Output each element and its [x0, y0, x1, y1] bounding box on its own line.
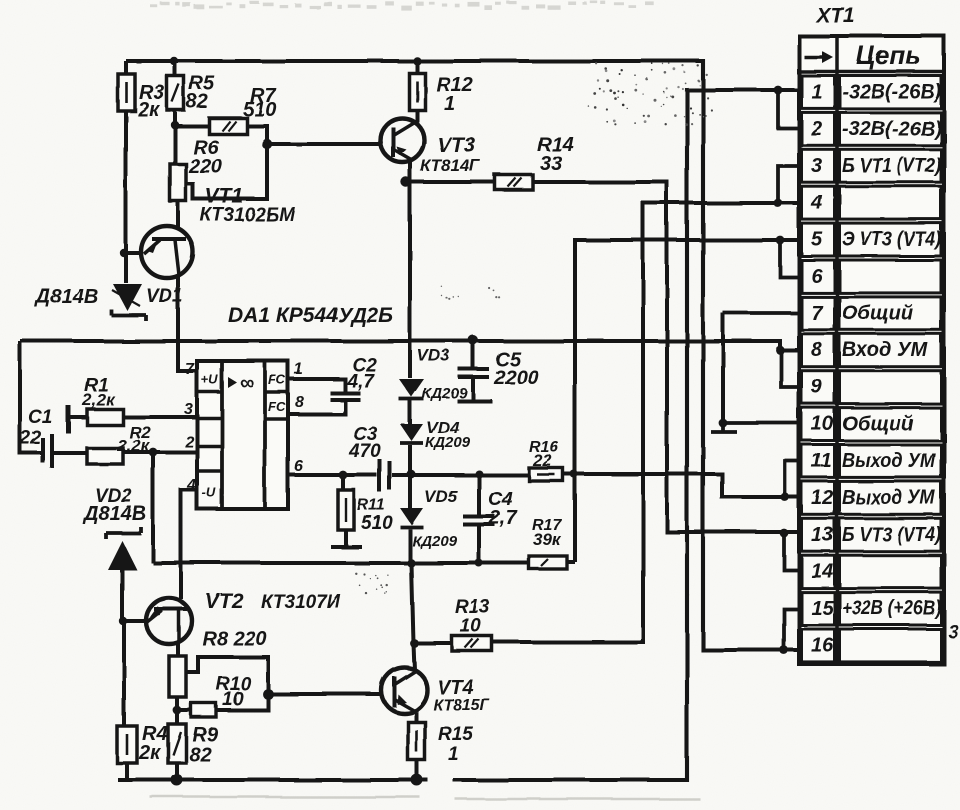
- svg-text:Общий: Общий: [842, 302, 913, 324]
- wire C3 to R16: [392, 473, 529, 477]
- connector XT1 table: [799, 4, 944, 664]
- resistor R10: [191, 703, 216, 717]
- faint scan ghost line at bottom: [150, 797, 700, 799]
- wire output node to VD5: [408, 474, 412, 508]
- common bar below C5: [457, 399, 492, 403]
- zener diode VD1: [111, 284, 146, 321]
- svg-text:3: 3: [948, 622, 959, 643]
- wire VT4 emitter to R15: [414, 712, 418, 722]
- wire pin 7 stub: [723, 311, 799, 315]
- wire bracket pins 15-16: [784, 609, 799, 650]
- svg-text:Б VT1 (VT2): Б VT1 (VT2): [842, 155, 941, 177]
- connector header divider: [799, 70, 944, 74]
- svg-text:КД209: КД209: [425, 434, 471, 451]
- svg-text:470: 470: [348, 441, 381, 462]
- resistor R6: [170, 164, 186, 201]
- svg-text:1: 1: [444, 93, 455, 115]
- wire VT2 emitter to left rail: [124, 619, 147, 623]
- scan speckle noise: [355, 62, 712, 595]
- wire R11 bottom to common bar: [344, 530, 348, 546]
- connector row 2: [802, 112, 942, 145]
- connector row 14: [802, 555, 942, 588]
- svg-text:2,2к: 2,2к: [116, 436, 151, 455]
- svg-text:VT4: VT4: [437, 677, 474, 699]
- svg-text:11: 11: [811, 450, 832, 472]
- svg-text:R9: R9: [192, 724, 218, 746]
- svg-text:6: 6: [294, 458, 303, 475]
- svg-text:КТ814Г: КТ814Г: [420, 156, 481, 175]
- svg-text:КТ3102БМ: КТ3102БМ: [200, 205, 296, 226]
- resistor R15: [408, 722, 425, 760]
- resistor R1: [87, 409, 123, 425]
- svg-text:VT3: VT3: [437, 134, 476, 157]
- wire R1 to DA1 pin 3: [123, 415, 197, 419]
- svg-text:VT2: VT2: [205, 590, 244, 613]
- wire bracket pins 3-4: [778, 166, 799, 203]
- wire pins 7-10 bracket: [721, 313, 725, 423]
- resistor R17: [529, 556, 567, 569]
- svg-text:КТ3107И: КТ3107И: [261, 592, 341, 613]
- svg-text:22: 22: [532, 451, 552, 470]
- svg-text:7: 7: [185, 361, 195, 378]
- svg-text:8: 8: [295, 394, 304, 411]
- svg-text:2: 2: [810, 118, 822, 140]
- op-amp DA1: [197, 361, 288, 509]
- svg-text:VD3: VD3: [417, 346, 451, 365]
- svg-text:Цепь: Цепь: [856, 40, 921, 70]
- svg-text:VD1: VD1: [146, 286, 183, 307]
- wire VT4 base line: [268, 692, 382, 696]
- wire DA1 pin 8 to C2: [288, 400, 345, 414]
- faint cropped text at top edge: [150, 1, 654, 11]
- zener diode VD2: [106, 527, 141, 570]
- resistor R14: [495, 175, 533, 190]
- svg-text:Выход УМ: Выход УМ: [842, 450, 936, 472]
- resistor R2: [87, 448, 123, 464]
- wire bracket pins 8-9: [781, 350, 799, 387]
- wire bracket pins 5-6: [780, 240, 799, 277]
- wire VD2 lead down to VT2 node: [120, 570, 124, 621]
- wire bracket pins 13-14: [784, 533, 799, 570]
- svg-text:14: 14: [811, 561, 833, 583]
- common bar below R11: [331, 545, 362, 549]
- svg-text:9: 9: [811, 376, 823, 398]
- svg-text:510: 510: [243, 99, 276, 121]
- wire R10 loop to R8 top notch: [186, 657, 268, 710]
- svg-text:Выход УМ: Выход УМ: [842, 487, 936, 509]
- wire VD chain column: [408, 182, 412, 378]
- svg-text:FC: FC: [268, 372, 286, 387]
- connector row 8: [802, 334, 942, 367]
- wire R5 bottom to node: [173, 110, 177, 126]
- svg-text:VD5: VD5: [424, 487, 458, 506]
- wire R1 left stub: [68, 415, 87, 419]
- wire R5 top lead: [173, 61, 177, 76]
- svg-text:4: 4: [186, 477, 196, 494]
- wire C4 branch top: [477, 474, 481, 516]
- svg-text:-32В(-26В): -32В(-26В): [842, 81, 941, 103]
- svg-text:10: 10: [460, 616, 482, 637]
- svg-text:FC: FC: [268, 399, 286, 414]
- wire DA1 pin 6 output: [288, 473, 377, 477]
- connector row 5: [802, 223, 942, 256]
- svg-text:1: 1: [811, 81, 822, 103]
- transistor VT1: [141, 226, 193, 278]
- wire VT1 collector down to DA1 pin 7: [178, 276, 197, 371]
- connector row 15: [802, 592, 942, 625]
- wire node to R7: [175, 124, 209, 128]
- svg-text:3: 3: [811, 155, 822, 177]
- wire VD3 to VD4: [408, 400, 412, 424]
- wire R13 to bus and pins 3/4 feed: [492, 203, 799, 642]
- connector column divider: [835, 36, 839, 664]
- svg-text:2200: 2200: [493, 367, 539, 389]
- svg-text:1: 1: [294, 361, 303, 378]
- svg-text:DA1 КР544УД2Б: DA1 КР544УД2Б: [228, 304, 393, 327]
- connector row 11: [802, 445, 942, 478]
- connector row 1: [802, 76, 942, 109]
- wire DA1 pin 4 to VT2: [181, 490, 197, 599]
- resistor R4: [117, 726, 137, 763]
- connector outer frame: [799, 36, 944, 664]
- svg-text:10: 10: [811, 413, 833, 435]
- connector row 16: [802, 629, 942, 662]
- svg-text:6: 6: [811, 265, 823, 287]
- resistor R9: [168, 724, 186, 763]
- svg-text:8: 8: [811, 339, 823, 361]
- capacitor C4: [463, 517, 495, 525]
- resistor R5: [167, 76, 184, 110]
- svg-text:7: 7: [811, 302, 823, 324]
- wire feedback line down to VT4 collector: [411, 563, 414, 670]
- svg-text:C1: C1: [28, 407, 52, 428]
- wire node to R10: [177, 708, 191, 712]
- wire R14 to bus and pin 13 feed: [533, 182, 799, 532]
- capacitor C1: [43, 434, 52, 468]
- wire C4 branch bottom: [477, 524, 481, 563]
- svg-text:33: 33: [540, 153, 562, 175]
- svg-text:10: 10: [222, 689, 244, 710]
- capacitor C5: [458, 369, 489, 377]
- wire R6 to VT1 base: [176, 201, 180, 227]
- connector row 3: [802, 149, 942, 182]
- svg-text:22: 22: [19, 428, 42, 449]
- wire R17 right lead: [567, 560, 575, 564]
- svg-text:16: 16: [811, 635, 834, 657]
- resistor R11: [338, 490, 354, 530]
- resistor R3: [118, 74, 135, 111]
- node stub left of R1: [66, 405, 71, 433]
- wire R16 to output feed pins 11/12: [563, 474, 799, 497]
- connector row 12: [802, 481, 942, 514]
- capacitor C2: [330, 393, 360, 400]
- resistor R7: [209, 118, 247, 134]
- svg-text:1: 1: [448, 744, 459, 765]
- svg-text:82: 82: [189, 744, 211, 766]
- capacitor C3: [380, 459, 390, 492]
- wire inverting node down to feedback line: [151, 452, 155, 563]
- svg-text:R11: R11: [357, 497, 385, 514]
- connector row 6: [802, 260, 942, 293]
- svg-text:∞: ∞: [240, 372, 254, 394]
- connector row 13: [802, 518, 942, 551]
- svg-text:39к: 39к: [533, 530, 562, 549]
- svg-text:Б VT3 (VT4): Б VT3 (VT4): [842, 524, 941, 546]
- svg-text:Э VT3 (VT4): Э VT3 (VT4): [842, 229, 941, 251]
- wire R7 to loop corner and VT3 base tap: [186, 126, 267, 199]
- diode VD3: [399, 379, 424, 399]
- wire C5 branch bottom to common bar: [471, 378, 475, 400]
- svg-text:+U: +U: [201, 372, 219, 387]
- svg-text:+32В (+26В): +32В (+26В): [842, 598, 941, 620]
- connector row 10: [802, 408, 942, 441]
- svg-text:Д814В: Д814В: [82, 503, 146, 525]
- resistor R12: [409, 73, 425, 110]
- svg-text:82: 82: [186, 91, 208, 113]
- svg-text:Д814В: Д814В: [34, 286, 98, 308]
- wire top rail (-32V) to pins 15/16: [126, 61, 799, 650]
- svg-text:12: 12: [811, 487, 833, 509]
- svg-text:2к: 2к: [137, 99, 160, 121]
- svg-text:4: 4: [810, 192, 822, 214]
- wire VT2 collector to R8: [176, 643, 180, 656]
- wire R11 top lead: [341, 475, 345, 490]
- wire R4 bottom lead: [125, 763, 129, 781]
- wire input line pin 8 net: [20, 341, 799, 350]
- wire R15 bottom lead: [415, 760, 419, 781]
- wire VD4 to output node: [408, 445, 412, 474]
- wire DA1 pin 1 to C2: [288, 379, 345, 392]
- svg-text:2,2к: 2,2к: [81, 390, 116, 409]
- wire R14 line from VT3 node: [406, 180, 495, 184]
- wire R13 line: [414, 641, 452, 645]
- wire R8 to R10 node: [175, 697, 179, 724]
- wire R12 top lead: [415, 61, 419, 73]
- wire left rail R3 top lead: [124, 61, 128, 74]
- connector row 7: [802, 297, 942, 330]
- svg-text:5: 5: [811, 229, 823, 251]
- transistor VT2: [146, 598, 192, 644]
- svg-text:R15: R15: [438, 724, 473, 745]
- svg-text:R13: R13: [455, 597, 490, 618]
- svg-text:2,7: 2,7: [488, 507, 518, 529]
- svg-text:2: 2: [184, 434, 194, 451]
- wire emitter rail pin 5 feed: [575, 240, 799, 562]
- wire bracket pins 11-12: [785, 461, 799, 497]
- diode VD4: [400, 424, 423, 443]
- svg-text:220: 220: [188, 156, 222, 178]
- svg-text:XT1: XT1: [815, 4, 855, 27]
- wire VT3 emitter down to node: [408, 159, 412, 182]
- svg-text:4,7: 4,7: [346, 371, 375, 392]
- svg-text:Вход УМ: Вход УМ: [842, 339, 928, 361]
- wire R6 top lead: [173, 126, 177, 164]
- svg-text:-32В(-26В): -32В(-26В): [842, 118, 941, 140]
- wire left rail VT2 node to R4: [122, 621, 126, 726]
- resistor R13: [452, 636, 492, 651]
- common tick below pin7/10 node: [711, 423, 737, 432]
- svg-text:510: 510: [361, 513, 393, 534]
- wire VT1 emitter to left rail: [124, 251, 143, 255]
- wire bottom rail to pins 1/2 bus: [118, 90, 799, 780]
- wire R2 to DA1 pin 2: [123, 450, 197, 454]
- wire pin 10 stub: [723, 421, 799, 425]
- wire R9 bottom lead: [175, 763, 179, 781]
- svg-text:R8 220: R8 220: [202, 628, 267, 650]
- svg-text:-U: -U: [202, 485, 216, 500]
- wire bracket pins 1-2: [778, 90, 799, 128]
- diode VD5: [400, 508, 423, 527]
- svg-text:КД209: КД209: [422, 385, 468, 402]
- wire R12 to VT3 collector: [415, 110, 419, 122]
- wire input left edge down to C1: [20, 341, 42, 453]
- wire VD5 to feedback line: [408, 529, 412, 563]
- connector row 9: [802, 371, 942, 404]
- transistor VT3: [380, 118, 424, 162]
- svg-text:КД209: КД209: [412, 533, 458, 550]
- resistor R8: [169, 656, 186, 697]
- transistor VT4: [381, 667, 427, 713]
- svg-text:КТ815Г: КТ815Г: [433, 697, 491, 714]
- svg-text:2к: 2к: [138, 742, 161, 764]
- svg-text:13: 13: [811, 524, 833, 546]
- svg-text:Общий: Общий: [842, 413, 913, 435]
- resistor R16: [529, 468, 563, 481]
- connector header arrow: [804, 55, 826, 58]
- wire VT3 base line: [267, 142, 381, 146]
- svg-text:15: 15: [811, 598, 834, 620]
- connector row 4: [802, 186, 942, 219]
- wire C5 branch top: [471, 341, 475, 368]
- wire C1 to R2: [53, 451, 87, 455]
- svg-text:3: 3: [184, 401, 193, 418]
- wire feedback line to R17: [153, 561, 529, 565]
- wire left rail R3 to VD1: [124, 111, 128, 283]
